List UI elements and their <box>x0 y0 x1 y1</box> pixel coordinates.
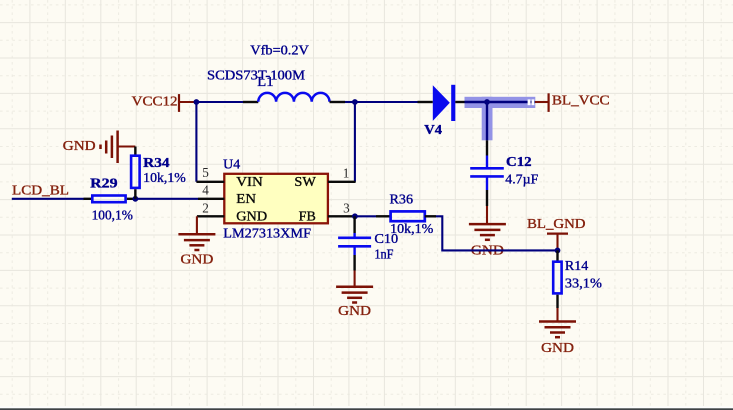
svg-text:V4: V4 <box>424 122 442 137</box>
R34 value <box>143 170 186 185</box>
wire R14 to ground <box>556 295 558 322</box>
wire C12 to ground <box>486 176 488 224</box>
L1 value SCDS73T-100M <box>207 67 305 82</box>
node at diode output <box>484 99 490 105</box>
ground below C12 <box>469 224 506 258</box>
U4 designator <box>223 156 240 171</box>
R29 designator <box>90 175 118 190</box>
svg-text:R29: R29 <box>90 175 118 190</box>
diode V4 <box>433 85 456 121</box>
pin 5 VIN <box>196 165 224 182</box>
capacitor C10 <box>338 238 371 247</box>
svg-text:LCD_BL: LCD_BL <box>12 183 69 198</box>
wire node to U4 EN <box>135 198 198 200</box>
svg-text:FB: FB <box>299 209 316 224</box>
pin 2 GND stub <box>197 200 224 216</box>
svg-text:GND: GND <box>236 209 267 224</box>
svg-text:4: 4 <box>202 182 209 197</box>
power port BL_GND <box>527 216 586 250</box>
wire down to U4 SW <box>354 102 356 182</box>
wire node to R14 <box>556 250 558 261</box>
annotation Vfb=0.2V <box>250 43 309 58</box>
R29 value <box>92 208 133 223</box>
wire FB to R36 <box>355 215 391 217</box>
pin name FB <box>299 209 316 224</box>
svg-text:U4: U4 <box>223 156 240 171</box>
svg-text:1nF: 1nF <box>374 247 393 262</box>
wire band end to C12 <box>486 140 488 168</box>
C10 designator <box>374 231 398 246</box>
wire down to U4 VIN <box>195 102 197 182</box>
svg-text:LM27313XMF: LM27313XMF <box>223 226 311 241</box>
resistor R36 <box>391 211 425 221</box>
svg-text:VIN: VIN <box>236 174 263 189</box>
node after inductor <box>352 99 358 105</box>
svg-text:SCDS73T-100M: SCDS73T-100M <box>207 67 305 82</box>
svg-text:EN: EN <box>236 191 256 206</box>
pin name SW <box>294 174 316 189</box>
svg-text:GND: GND <box>541 340 574 355</box>
svg-text:5: 5 <box>202 165 209 180</box>
L1 designator <box>257 74 273 89</box>
svg-text:BL_GND: BL_GND <box>527 216 586 231</box>
svg-text:R36: R36 <box>390 191 414 206</box>
ground left of R34 (rotated) <box>63 131 136 164</box>
ground below R14 <box>539 322 576 355</box>
pin 3 FB stub <box>328 200 355 216</box>
resistor R14 <box>553 262 561 294</box>
R14 designator <box>565 258 589 273</box>
wire LCD_BL to R29 <box>12 198 92 200</box>
ground below U4 <box>178 234 215 266</box>
svg-text:R14: R14 <box>565 258 589 273</box>
pin name VIN <box>236 174 263 189</box>
svg-text:C10: C10 <box>374 231 398 246</box>
pin 4 EN stub <box>198 182 224 199</box>
svg-text:GND: GND <box>63 138 96 153</box>
svg-text:GND: GND <box>181 252 214 267</box>
svg-text:1: 1 <box>343 165 350 180</box>
R36 value <box>390 221 433 236</box>
node at BL_GND <box>555 248 561 254</box>
node at VCC12 junction <box>194 99 200 105</box>
capacitor C12 <box>470 168 504 176</box>
svg-text:C12: C12 <box>506 154 532 169</box>
wire R29 to node <box>127 198 135 200</box>
pin name EN <box>236 191 256 206</box>
wire R36 to BL_GND node <box>425 216 558 250</box>
wire diode to BL_VCC (selected, highlighted) <box>455 97 535 141</box>
R34 designator <box>143 155 170 170</box>
svg-text:10k,1%: 10k,1% <box>143 170 186 185</box>
wire ground to R34 <box>134 147 136 156</box>
power port BL_VCC <box>535 92 610 112</box>
svg-text:GND: GND <box>338 303 371 318</box>
R14 value <box>565 276 602 291</box>
svg-text:2: 2 <box>202 200 209 215</box>
C10 value <box>374 247 393 262</box>
node at FB <box>352 213 358 219</box>
U4 value LM27313XMF <box>223 226 311 241</box>
pin 1 SW stub <box>328 165 356 182</box>
svg-text:3: 3 <box>343 200 350 215</box>
node R29/R34/EN <box>132 196 138 202</box>
resistor R34 <box>131 156 140 188</box>
wire node to diode <box>355 101 433 103</box>
wire inductor to node <box>330 101 355 103</box>
wire FB node down to C10 <box>353 216 355 238</box>
pin name GND <box>236 209 267 224</box>
inductor L1 <box>258 93 329 102</box>
svg-text:33,1%: 33,1% <box>565 276 602 291</box>
svg-text:Vfb=0.2V: Vfb=0.2V <box>250 43 309 58</box>
wire R34 to node <box>134 189 136 199</box>
C12 value <box>505 171 538 186</box>
R36 designator <box>390 191 414 206</box>
net label LCD_BL <box>12 183 69 198</box>
IC U4 body <box>224 174 328 224</box>
svg-text:SW: SW <box>294 174 316 189</box>
wire C10 to ground <box>353 246 355 286</box>
bottom window edge <box>0 406 733 410</box>
svg-text:100,1%: 100,1% <box>92 208 133 223</box>
svg-text:VCC12: VCC12 <box>132 94 178 109</box>
wire VCC12 node to inductor <box>196 101 258 103</box>
svg-text:BL_VCC: BL_VCC <box>552 92 610 107</box>
svg-text:4.7µF: 4.7µF <box>505 171 538 186</box>
wire U4 GND pin to ground <box>196 216 198 234</box>
C12 designator <box>506 154 532 169</box>
svg-text:R34: R34 <box>143 155 170 170</box>
V4 designator <box>424 122 442 137</box>
ground below C10 <box>336 287 373 318</box>
resistor R29 <box>92 196 125 203</box>
power port VCC12 <box>132 94 197 112</box>
